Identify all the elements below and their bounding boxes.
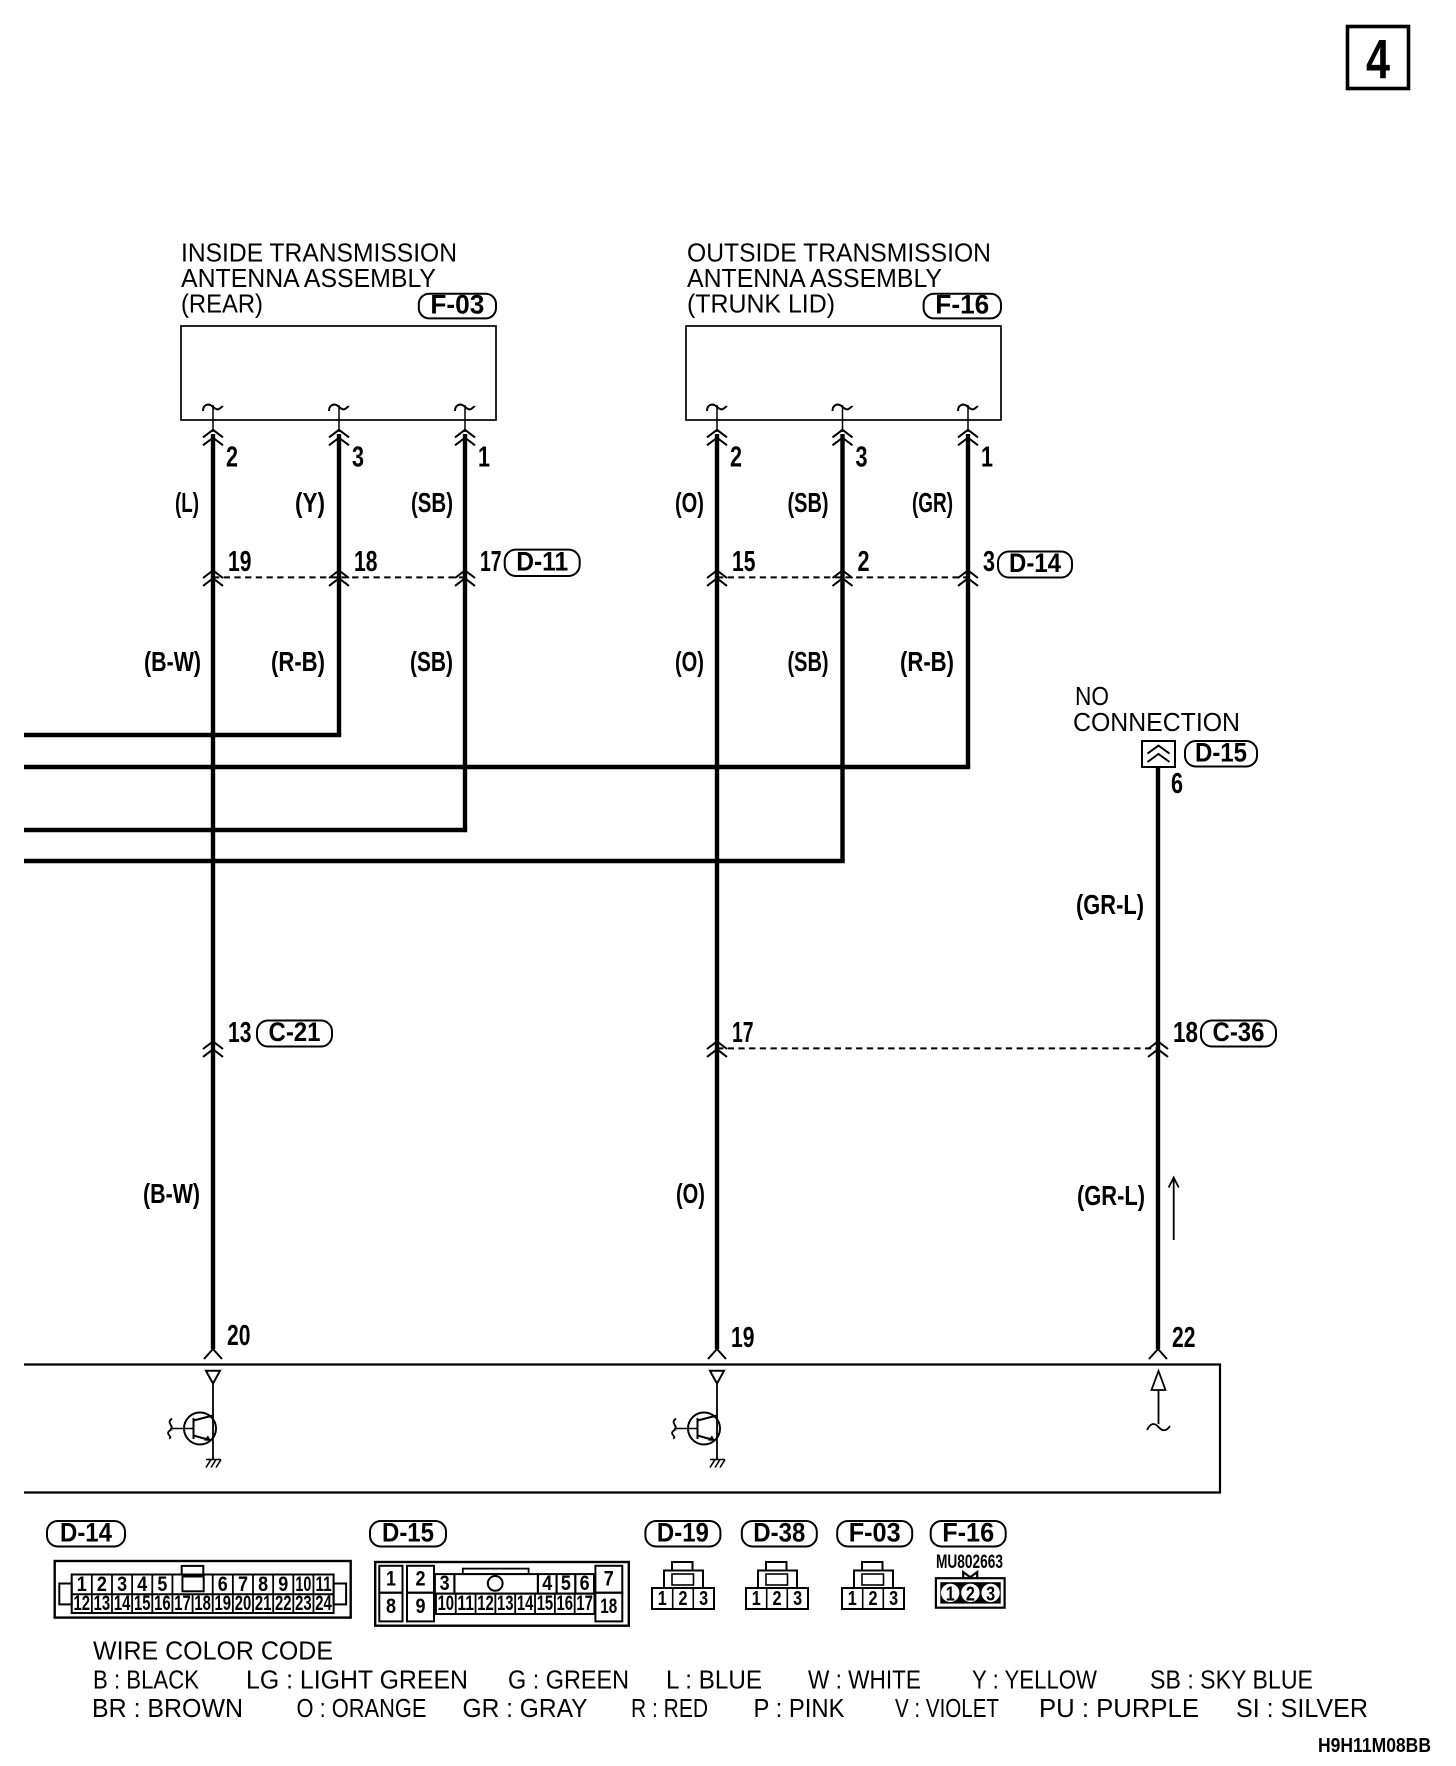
wire (SB) from F-16 pin 3 down then left — [840, 434, 844, 861]
svg-text:1: 1 — [946, 1583, 955, 1605]
svg-text:15: 15 — [134, 1592, 151, 1615]
svg-text:18: 18 — [600, 1595, 617, 1618]
pin squiggle terminal at x=339 — [329, 405, 349, 411]
connector label D-14 — [47, 1521, 125, 1547]
wire (GR-L) from D-15 no-connection down to ECU pin 22 — [1156, 767, 1160, 1349]
svg-text:13: 13 — [94, 1592, 111, 1615]
in-line connector chevrons x=717 y=577.4 — [707, 570, 727, 586]
connector label D-15 — [370, 1521, 446, 1547]
svg-text:C-36: C-36 — [1213, 1017, 1265, 1047]
svg-text:F-03: F-03 — [430, 290, 484, 320]
svg-text:2: 2 — [730, 442, 742, 474]
svg-text:1: 1 — [981, 442, 993, 474]
svg-text:(L): (L) — [175, 487, 199, 518]
dashed in-line connector C-36 — [717, 1047, 1158, 1049]
pin squiggle terminal at x=213 — [203, 405, 223, 411]
svg-text:(O): (O) — [675, 646, 704, 677]
svg-text:11: 11 — [457, 1592, 474, 1615]
svg-text:7: 7 — [604, 1568, 614, 1591]
connector face D-14 — [55, 1561, 351, 1618]
connector face F-03 — [862, 1562, 883, 1571]
pin squiggle terminal at x=465 — [455, 405, 475, 411]
svg-text:1: 1 — [752, 1588, 761, 1610]
wire (O) from F-16 pin 2 down to ECU pin 19 — [715, 434, 719, 1349]
arrow terminal below pin 22 inside ECU — [1152, 1371, 1166, 1424]
svg-text:INSIDE TRANSMISSION: INSIDE TRANSMISSION — [181, 239, 457, 267]
wire (L)/(B-W) from F-03 pin 2 down to ECU pin 20 — [211, 434, 215, 1349]
ECU box (open left) — [24, 1365, 1220, 1493]
svg-text:3: 3 — [856, 442, 868, 474]
svg-text:ANTENNA ASSEMBLY: ANTENNA ASSEMBLY — [181, 265, 436, 293]
svg-text:L : BLUE: L : BLUE — [666, 1667, 762, 1695]
in-line connector chevrons x=1158 y=1048.4 — [1148, 1041, 1168, 1057]
connector face D-38 — [766, 1562, 787, 1571]
terminal fork at ECU pin 20 — [204, 1349, 222, 1359]
svg-text:2: 2 — [416, 1568, 426, 1591]
svg-text:3: 3 — [699, 1588, 708, 1610]
svg-text:16: 16 — [154, 1592, 171, 1615]
svg-text:CONNECTION: CONNECTION — [1073, 709, 1240, 737]
connector label D-15 — [1185, 741, 1257, 767]
svg-text:MU802663: MU802663 — [936, 1551, 1003, 1573]
pin squiggle terminal at x=717 — [707, 405, 727, 411]
junction chevrons at top of wire x=717 — [707, 430, 727, 446]
svg-text:GR : GRAY: GR : GRAY — [463, 1695, 588, 1723]
svg-text:2: 2 — [678, 1588, 687, 1610]
svg-text:17: 17 — [174, 1592, 191, 1615]
svg-text:D-11: D-11 — [516, 546, 568, 576]
svg-text:Y : YELLOW: Y : YELLOW — [972, 1667, 1097, 1695]
svg-text:1: 1 — [478, 442, 490, 474]
svg-text:NO: NO — [1075, 683, 1109, 711]
svg-text:(R-B): (R-B) — [900, 646, 954, 677]
svg-text:13: 13 — [228, 1017, 251, 1049]
svg-text:2: 2 — [772, 1588, 781, 1610]
svg-text:2: 2 — [966, 1583, 975, 1605]
in-line connector chevrons x=213 y=577.4 — [203, 570, 223, 586]
svg-text:(O): (O) — [676, 1178, 705, 1209]
in-line connector chevrons x=842.5 y=577.4 — [833, 570, 853, 586]
svg-text:13: 13 — [497, 1592, 514, 1615]
svg-text:W : WHITE: W : WHITE — [808, 1667, 921, 1695]
svg-text:(Y): (Y) — [295, 487, 325, 518]
svg-text:19: 19 — [228, 546, 251, 578]
svg-text:D-19: D-19 — [657, 1517, 709, 1547]
in-line connector chevrons x=717 y=1048.4 — [707, 1041, 727, 1057]
svg-text:F-16: F-16 — [935, 290, 989, 320]
connector label F-03 — [837, 1521, 912, 1547]
svg-text:(R-B): (R-B) — [271, 646, 325, 677]
wire horizontal (SB) to left edge y=861 — [24, 859, 845, 863]
svg-text:B : BLACK: B : BLACK — [93, 1667, 199, 1695]
svg-text:(B-W): (B-W) — [143, 1178, 200, 1209]
junction chevrons at top of wire x=842.5 — [833, 430, 853, 446]
transistor amplifier at wire x=717 — [688, 1413, 720, 1445]
svg-text:(O): (O) — [675, 487, 704, 518]
svg-text:19: 19 — [731, 1322, 754, 1354]
svg-text:D-14: D-14 — [1009, 548, 1061, 578]
terminal fork at ECU pin 19 — [708, 1349, 726, 1359]
svg-text:12: 12 — [477, 1592, 494, 1615]
direction arrow beside (GR-L) wire — [1169, 1178, 1179, 1241]
svg-text:16: 16 — [557, 1592, 574, 1615]
connector label C-21 — [257, 1021, 332, 1047]
connector F-16 box — [686, 326, 1001, 420]
antenna symbol at wire x=213 — [206, 1371, 220, 1384]
sheet number box 4 — [1348, 27, 1409, 89]
svg-text:22: 22 — [1172, 1322, 1195, 1354]
svg-text:(TRUNK LID): (TRUNK LID) — [687, 291, 835, 319]
svg-text:(SB): (SB) — [788, 487, 829, 518]
svg-text:18: 18 — [354, 546, 377, 578]
wire horizontal (R-B) to left edge y=767 — [24, 765, 970, 769]
svg-text:3: 3 — [889, 1588, 898, 1610]
svg-text:17: 17 — [576, 1592, 593, 1615]
pin squiggle terminal at x=842.5 — [833, 405, 853, 411]
svg-text:(REAR): (REAR) — [181, 291, 263, 319]
svg-text:D-14: D-14 — [60, 1517, 112, 1547]
in-line connector chevrons x=213 y=1048.4 — [203, 1041, 223, 1057]
svg-text:O : ORANGE: O : ORANGE — [297, 1695, 427, 1723]
svg-text:10: 10 — [438, 1592, 455, 1615]
svg-text:8: 8 — [386, 1595, 396, 1618]
connector label F-16 — [924, 294, 1001, 319]
svg-text:V : VIOLET: V : VIOLET — [895, 1695, 999, 1723]
svg-text:23: 23 — [295, 1592, 312, 1615]
svg-text:H9H11M08BB: H9H11M08BB — [1318, 1734, 1431, 1757]
svg-text:20: 20 — [227, 1320, 250, 1352]
svg-text:15: 15 — [537, 1592, 554, 1615]
svg-text:3: 3 — [793, 1588, 802, 1610]
svg-text:SI : SILVER: SI : SILVER — [1236, 1695, 1368, 1723]
svg-text:(SB): (SB) — [411, 487, 453, 518]
svg-text:1: 1 — [658, 1588, 667, 1610]
svg-text:ANTENNA ASSEMBLY: ANTENNA ASSEMBLY — [687, 265, 942, 293]
svg-text:19: 19 — [215, 1592, 232, 1615]
svg-text:2: 2 — [868, 1588, 877, 1610]
svg-text:20: 20 — [235, 1592, 252, 1615]
pin squiggle terminal at x=968 — [958, 405, 978, 411]
svg-text:3: 3 — [986, 1583, 995, 1605]
svg-text:15: 15 — [732, 546, 755, 578]
in-line connector chevrons x=339 y=577.4 — [329, 570, 349, 586]
svg-text:WIRE COLOR CODE: WIRE COLOR CODE — [93, 1638, 333, 1666]
svg-text:(GR): (GR) — [912, 487, 953, 518]
svg-text:14: 14 — [517, 1592, 534, 1615]
svg-text:P : PINK: P : PINK — [754, 1695, 845, 1723]
svg-text:(GR-L): (GR-L) — [1076, 889, 1144, 920]
connector face F-16 — [963, 1572, 977, 1578]
junction chevrons at top of wire x=968 — [958, 430, 978, 446]
wire horizontal (R-B) to left edge y=735 — [24, 733, 341, 737]
svg-text:(B-W): (B-W) — [144, 646, 201, 677]
connector label F-16 — [931, 1521, 1006, 1547]
wire (Y)/(R-B) from F-03 pin 3 down then left — [337, 434, 341, 735]
connector label D-14 — [998, 552, 1072, 578]
svg-text:1: 1 — [386, 1568, 396, 1591]
svg-text:OUTSIDE TRANSMISSION: OUTSIDE TRANSMISSION — [687, 239, 991, 267]
junction chevrons at top of wire x=465 — [455, 430, 475, 446]
junction chevrons at top of wire x=213 — [203, 430, 223, 446]
connector face D-15 — [375, 1562, 629, 1626]
svg-text:LG : LIGHT GREEN: LG : LIGHT GREEN — [246, 1667, 468, 1695]
connector label D-38 — [742, 1521, 817, 1547]
svg-text:17: 17 — [732, 1017, 754, 1049]
svg-text:21: 21 — [255, 1592, 272, 1615]
svg-text:4: 4 — [1366, 28, 1390, 91]
svg-text:18: 18 — [1173, 1017, 1198, 1049]
svg-text:F-03: F-03 — [849, 1517, 901, 1547]
svg-text:PU : PURPLE: PU : PURPLE — [1039, 1695, 1199, 1723]
svg-text:(GR-L): (GR-L) — [1077, 1180, 1145, 1211]
connector label C-36 — [1201, 1021, 1276, 1047]
svg-text:SB : SKY BLUE: SB : SKY BLUE — [1150, 1667, 1313, 1695]
connector F-03 box — [181, 326, 496, 420]
shield squiggle on base lead x=213 — [168, 1419, 172, 1439]
svg-text:2: 2 — [226, 442, 238, 474]
terminal fork at ECU pin 22 — [1149, 1349, 1167, 1359]
ground symbol at wire x=717 — [710, 1460, 725, 1468]
svg-text:18: 18 — [194, 1592, 211, 1615]
in-line connector chevrons x=968 y=577.4 — [958, 570, 978, 586]
svg-text:D-38: D-38 — [753, 1517, 805, 1547]
svg-text:D-15: D-15 — [1195, 737, 1247, 767]
svg-text:(SB): (SB) — [410, 646, 453, 677]
connector label D-19 — [645, 1521, 720, 1547]
wire (GR) / (R-B) from F-16 pin 1 down then left — [966, 434, 970, 767]
svg-text:C-21: C-21 — [269, 1017, 321, 1047]
dashed in-line connector D-11 — [213, 576, 465, 578]
dashed in-line connector D-14 — [717, 576, 968, 578]
svg-text:2: 2 — [858, 546, 870, 578]
svg-text:22: 22 — [275, 1592, 292, 1615]
ground symbol at wire x=213 — [206, 1460, 221, 1468]
svg-text:1: 1 — [848, 1588, 857, 1610]
shield squiggle on base lead x=717 — [672, 1419, 676, 1439]
svg-text:(SB): (SB) — [788, 646, 829, 677]
svg-text:F-16: F-16 — [942, 1517, 994, 1547]
wire horizontal (SB) to left edge y=830 — [24, 828, 467, 832]
junction chevrons at top of wire x=339 — [329, 430, 349, 446]
svg-text:6: 6 — [1171, 768, 1183, 800]
svg-text:9: 9 — [416, 1595, 426, 1618]
svg-text:14: 14 — [114, 1592, 131, 1615]
svg-text:17: 17 — [480, 546, 502, 578]
antenna symbol at wire x=717 — [710, 1371, 724, 1384]
svg-text:24: 24 — [315, 1592, 332, 1615]
connector label D-11 — [505, 550, 580, 576]
connector label F-03 — [419, 294, 496, 319]
connector face D-19 — [672, 1562, 693, 1571]
svg-text:D-15: D-15 — [382, 1517, 434, 1547]
no-connection terminal box D-15 pin 6 — [1142, 741, 1175, 767]
svg-text:BR : BROWN: BR : BROWN — [92, 1695, 243, 1723]
transistor amplifier at wire x=213 — [184, 1413, 216, 1445]
wire (SB) from F-03 pin 1 down then left — [463, 434, 467, 830]
svg-text:12: 12 — [74, 1592, 91, 1615]
svg-text:R : RED: R : RED — [631, 1695, 708, 1723]
in-line connector chevrons x=465 y=577.4 — [455, 570, 475, 586]
svg-text:3: 3 — [983, 546, 995, 578]
svg-text:G : GREEN: G : GREEN — [508, 1667, 629, 1695]
svg-text:3: 3 — [352, 442, 364, 474]
